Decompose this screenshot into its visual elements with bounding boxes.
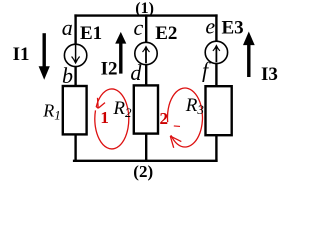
wire left branch top (a to E1): [74, 14, 76, 44]
svg-text:c: c: [134, 15, 144, 40]
svg-text:2: 2: [160, 109, 169, 128]
wire bottom rail node (2): [73, 160, 218, 162]
svg-text:I1: I1: [13, 44, 30, 65]
wire left branch bottom (R1 to rail): [74, 134, 76, 162]
wire right branch bottom (R3 to rail): [215, 135, 217, 162]
EMF source E3 circle: [205, 41, 227, 63]
wire right branch middle (E3 to R3, node f): [215, 63, 217, 87]
mesh loop 1 arrow (red, counterclockwise): [95, 89, 129, 149]
svg-text:I2: I2: [101, 59, 118, 80]
wire top rail node (1): [74, 14, 217, 16]
wire middle branch middle (E2 to R2, node d): [145, 64, 147, 86]
svg-text:E2: E2: [155, 23, 177, 44]
wire left branch middle (E1 to R1, node b): [74, 66, 76, 86]
resistor R2 body: [134, 85, 158, 133]
current arrow I2 (up): [115, 32, 126, 74]
EMF source E2 circle: [135, 42, 157, 64]
svg-text:E3: E3: [222, 18, 244, 39]
current arrow I1 (down): [39, 33, 50, 80]
svg-text:d: d: [130, 60, 142, 85]
svg-text:a: a: [62, 15, 73, 40]
svg-text:1: 1: [100, 108, 109, 127]
EMF source E1 circle: [64, 44, 86, 66]
EMF source E2 arrow (up): [143, 45, 150, 63]
resistor R3 body: [206, 86, 232, 135]
svg-text:I3: I3: [261, 64, 278, 85]
EMF source E3 arrow (up): [213, 44, 220, 62]
EMF source E1 arrow (down): [72, 45, 80, 65]
wire right branch top (e to E3): [215, 14, 217, 41]
current arrow I3 (up): [243, 32, 255, 78]
wire middle branch bottom (R2 to rail): [145, 133, 147, 162]
svg-text:(2): (2): [133, 162, 153, 181]
wire middle branch top (c to E2): [145, 14, 147, 42]
resistor R1 body: [63, 86, 87, 134]
svg-text:E1: E1: [80, 23, 102, 44]
svg-text:e: e: [205, 14, 215, 39]
mesh loop 2 arrow (red, clockwise): [167, 88, 202, 148]
svg-text:b: b: [62, 63, 73, 88]
